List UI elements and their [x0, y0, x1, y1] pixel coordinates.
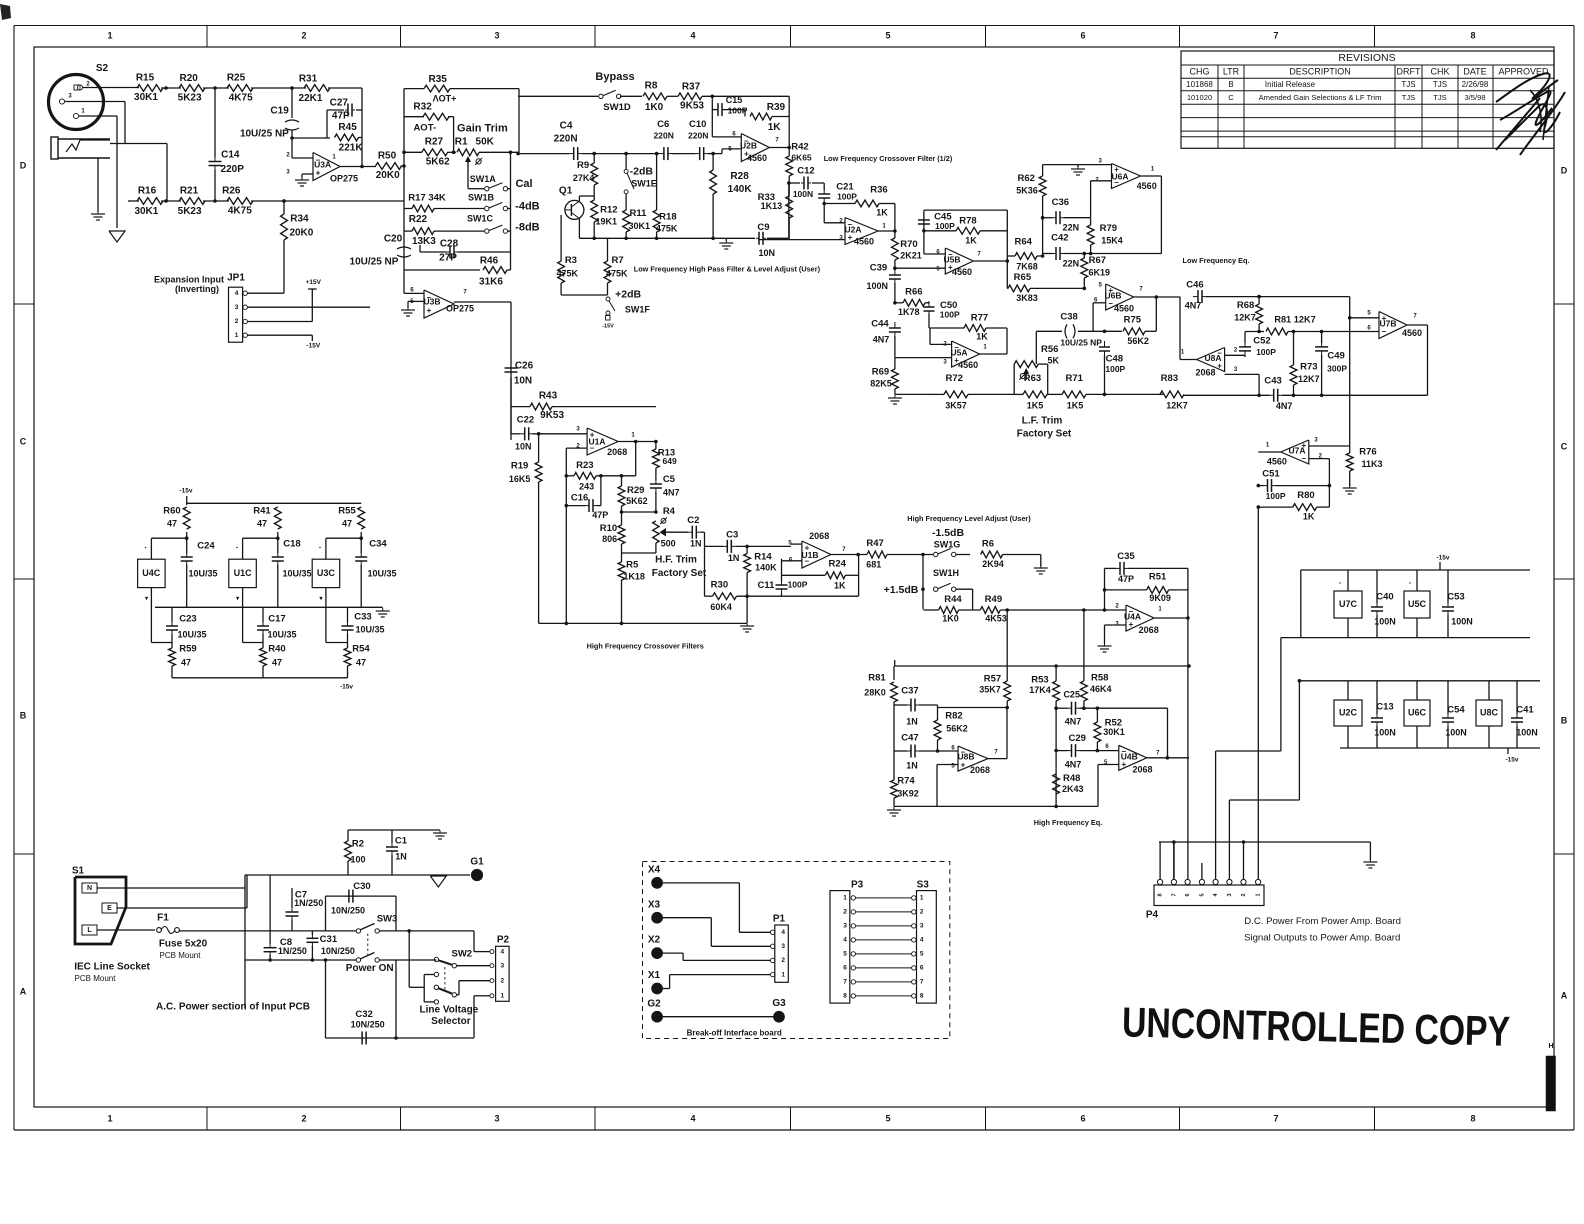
svg-text:C12: C12 [797, 166, 814, 177]
svg-text:N: N [87, 885, 92, 892]
svg-text:3: 3 [494, 1113, 499, 1123]
svg-text:C49: C49 [1327, 351, 1344, 362]
svg-text:19K1: 19K1 [595, 216, 617, 226]
svg-text:U3B: U3B [423, 296, 440, 306]
svg-text:+1.5dB: +1.5dB [884, 584, 919, 596]
svg-text:4K75: 4K75 [228, 206, 252, 217]
svg-text:10U/35: 10U/35 [267, 629, 296, 639]
svg-text:100P: 100P [837, 191, 857, 201]
svg-text:20K0: 20K0 [376, 170, 400, 181]
svg-text:30K1: 30K1 [1103, 727, 1125, 737]
svg-text:R56: R56 [1041, 344, 1058, 355]
svg-text:10U/35: 10U/35 [367, 568, 396, 578]
svg-text:46K4: 46K4 [1090, 684, 1112, 694]
svg-text:-15V: -15V [306, 342, 320, 349]
svg-text:+: + [1121, 760, 1126, 769]
svg-text:4560: 4560 [1114, 303, 1134, 313]
svg-text:9K53: 9K53 [540, 410, 564, 421]
svg-text:OP275: OP275 [330, 173, 358, 183]
svg-text:1N/250: 1N/250 [278, 946, 307, 956]
svg-text:4560: 4560 [1402, 328, 1422, 338]
svg-text:C22: C22 [517, 415, 534, 426]
svg-text:-1.5dB: -1.5dB [932, 527, 965, 539]
svg-text:R5: R5 [626, 559, 639, 570]
svg-text:SW1D: SW1D [603, 102, 631, 113]
svg-text:U7C: U7C [1339, 599, 1358, 609]
svg-text:X3: X3 [648, 899, 661, 910]
svg-text:Initial Release: Initial Release [1265, 80, 1316, 89]
svg-text:U7A: U7A [1288, 445, 1305, 455]
svg-text:R27: R27 [425, 137, 444, 148]
svg-text:R55: R55 [338, 506, 356, 517]
svg-text:Expansion Input: Expansion Input [154, 274, 224, 284]
svg-text:R67: R67 [1089, 255, 1106, 266]
svg-text:R81 12K7: R81 12K7 [1274, 315, 1315, 325]
svg-text:C18: C18 [283, 539, 300, 550]
svg-text:1: 1 [1256, 893, 1262, 896]
svg-text:D: D [20, 160, 27, 170]
svg-text:4: 4 [235, 290, 239, 297]
svg-text:47: 47 [356, 657, 366, 667]
svg-text:U1B: U1B [801, 550, 818, 560]
svg-text:U2A: U2A [844, 224, 861, 234]
svg-text:C14: C14 [221, 149, 240, 160]
svg-text:DRFT: DRFT [1397, 66, 1421, 76]
svg-text:ΛOT+: ΛOT+ [433, 93, 457, 103]
svg-text:SW1H: SW1H [933, 568, 959, 578]
svg-text:35K7: 35K7 [979, 684, 1001, 694]
svg-text:+: + [427, 306, 432, 315]
svg-text:5: 5 [885, 1113, 890, 1123]
svg-text:C40: C40 [1376, 592, 1393, 603]
svg-text:4N7: 4N7 [663, 487, 680, 497]
svg-text:100P: 100P [1105, 364, 1125, 374]
svg-text:R72: R72 [945, 373, 962, 384]
svg-text:C51: C51 [1262, 469, 1280, 480]
svg-text:R54: R54 [352, 644, 370, 655]
svg-text:2068: 2068 [970, 765, 990, 775]
svg-text:U2C: U2C [1339, 707, 1358, 717]
svg-text:U8A: U8A [1204, 353, 1221, 363]
svg-text:Low Frequency Crossover Filter: Low Frequency Crossover Filter (1/2) [824, 154, 953, 163]
svg-text:4K75: 4K75 [229, 93, 253, 104]
svg-text:C39: C39 [870, 263, 887, 274]
svg-text:R43: R43 [539, 391, 558, 402]
svg-text:2: 2 [781, 957, 785, 964]
svg-text:P1: P1 [773, 914, 786, 925]
svg-text:U5C: U5C [1408, 599, 1427, 609]
svg-text:56K2: 56K2 [946, 723, 968, 733]
svg-text:100P: 100P [940, 310, 960, 320]
svg-text:2: 2 [500, 977, 504, 984]
svg-text:82K5: 82K5 [870, 379, 892, 389]
svg-text:100P: 100P [935, 221, 955, 231]
svg-text:U4C: U4C [142, 568, 161, 578]
svg-text:5K23: 5K23 [178, 206, 202, 217]
svg-text:475K: 475K [556, 269, 578, 279]
svg-text:R24: R24 [828, 559, 846, 570]
svg-text:2068: 2068 [1195, 367, 1215, 377]
svg-text:9K09: 9K09 [1149, 593, 1171, 603]
svg-text:Q1: Q1 [559, 185, 573, 196]
svg-text:100P: 100P [1266, 491, 1286, 501]
svg-text:C1: C1 [395, 836, 408, 847]
svg-text:2K94: 2K94 [982, 559, 1004, 569]
svg-text:G3: G3 [772, 998, 786, 1009]
svg-text:(Inverting): (Inverting) [175, 284, 219, 294]
svg-text:R8: R8 [645, 81, 658, 92]
svg-text:4: 4 [920, 937, 924, 944]
svg-text:4560: 4560 [854, 236, 874, 246]
svg-text:C29: C29 [1068, 733, 1085, 744]
svg-text:5: 5 [843, 951, 847, 958]
svg-text:AOT-: AOT- [413, 123, 436, 134]
svg-text:27K4: 27K4 [573, 173, 595, 183]
svg-text:1K18: 1K18 [623, 572, 645, 582]
svg-text:4: 4 [690, 1113, 695, 1123]
svg-text:R14: R14 [754, 552, 772, 563]
svg-text:300P: 300P [1327, 364, 1347, 374]
svg-text:2068: 2068 [607, 447, 627, 457]
svg-text:2068: 2068 [809, 531, 829, 541]
svg-text:SW1B: SW1B [468, 192, 495, 202]
svg-text:5: 5 [920, 951, 924, 958]
svg-text:100N: 100N [1516, 727, 1538, 737]
svg-text:101020: 101020 [1187, 93, 1212, 102]
svg-text:9K53: 9K53 [680, 101, 704, 112]
svg-text:4: 4 [690, 30, 695, 40]
svg-text:C31: C31 [320, 934, 338, 945]
svg-text:100N: 100N [793, 189, 813, 199]
svg-text:3/5/98: 3/5/98 [1464, 93, 1485, 102]
svg-text:R32: R32 [413, 101, 432, 112]
svg-text:220P: 220P [221, 164, 245, 175]
svg-text:R44: R44 [944, 594, 962, 605]
svg-text:C17: C17 [268, 614, 285, 625]
svg-text:2: 2 [920, 909, 924, 916]
svg-text:30K1: 30K1 [629, 221, 651, 231]
svg-text:R57: R57 [984, 674, 1001, 685]
svg-text:R49: R49 [985, 594, 1002, 605]
svg-text:140K: 140K [728, 184, 753, 195]
svg-text:JP1: JP1 [227, 273, 245, 284]
svg-text:+2dB: +2dB [615, 289, 641, 301]
svg-text:R20: R20 [180, 73, 199, 84]
svg-text:Factory Set: Factory Set [652, 568, 707, 579]
svg-text:1N: 1N [690, 538, 702, 548]
svg-text:R71: R71 [1065, 373, 1083, 384]
svg-text:B: B [20, 710, 27, 720]
svg-text:7K68: 7K68 [1016, 261, 1038, 271]
svg-text:R76: R76 [1359, 447, 1376, 458]
svg-text:C13: C13 [1376, 702, 1393, 713]
svg-text:2/26/98: 2/26/98 [1462, 80, 1489, 89]
svg-text:R11: R11 [630, 208, 648, 219]
svg-text:R69: R69 [872, 367, 889, 378]
svg-text:P3: P3 [851, 880, 864, 891]
svg-text:TJS: TJS [1433, 80, 1447, 89]
svg-text:R36: R36 [870, 185, 887, 196]
svg-text:R6: R6 [982, 539, 994, 550]
svg-text:R25: R25 [227, 73, 246, 84]
svg-text:50K: 50K [476, 137, 495, 148]
svg-text:U7B: U7B [1379, 318, 1396, 328]
svg-text:-8dB: -8dB [515, 222, 540, 234]
svg-text:U1C: U1C [234, 568, 253, 578]
svg-text:C11: C11 [758, 580, 776, 591]
svg-text:C: C [1228, 93, 1234, 102]
svg-text:3: 3 [494, 30, 499, 40]
svg-text:3: 3 [843, 923, 847, 930]
svg-text:C26: C26 [515, 361, 534, 372]
svg-text:6: 6 [920, 965, 924, 972]
svg-text:S3: S3 [917, 880, 930, 891]
svg-text:C53: C53 [1447, 592, 1464, 603]
svg-text:7: 7 [1273, 1113, 1278, 1123]
svg-text:S2: S2 [96, 63, 109, 74]
svg-text:-15v: -15v [1436, 555, 1449, 562]
svg-text:R48: R48 [1063, 773, 1080, 784]
svg-text:1K5: 1K5 [1027, 400, 1044, 410]
svg-text:▪: ▪ [236, 545, 238, 551]
svg-text:5K: 5K [1047, 355, 1059, 365]
svg-text:8: 8 [1470, 1113, 1475, 1123]
svg-text:56K2: 56K2 [1127, 336, 1149, 346]
svg-text:R30: R30 [711, 579, 728, 590]
svg-text:16K5: 16K5 [509, 474, 531, 484]
svg-text:47: 47 [181, 657, 191, 667]
svg-text:220N: 220N [654, 131, 674, 141]
svg-text:R9: R9 [577, 160, 589, 171]
svg-text:U6C: U6C [1408, 707, 1427, 717]
svg-text:10N/250: 10N/250 [331, 905, 365, 915]
svg-text:4560: 4560 [1267, 456, 1287, 466]
svg-text:+15V: +15V [306, 279, 322, 286]
svg-text:R15: R15 [136, 73, 155, 84]
svg-text:R41: R41 [253, 506, 271, 517]
svg-text:U1A: U1A [588, 436, 605, 446]
svg-text:Factory Set: Factory Set [1017, 429, 1072, 440]
svg-text:SW1F: SW1F [625, 304, 651, 314]
svg-text:U3C: U3C [317, 568, 336, 578]
svg-text:10N: 10N [515, 441, 532, 451]
svg-text:R82: R82 [945, 711, 962, 722]
svg-text:2068: 2068 [1132, 764, 1152, 774]
svg-text:3: 3 [235, 304, 239, 311]
svg-text:47P: 47P [1118, 574, 1134, 584]
svg-text:R1: R1 [455, 137, 468, 148]
svg-text:10U/35: 10U/35 [188, 568, 217, 578]
svg-text:R29: R29 [627, 485, 644, 496]
svg-text:10U/25 NP: 10U/25 NP [1060, 338, 1102, 348]
svg-text:L.F. Trim: L.F. Trim [1022, 416, 1063, 427]
svg-text:1: 1 [781, 971, 785, 978]
svg-text:4N7: 4N7 [1276, 401, 1293, 411]
svg-text:100: 100 [350, 854, 365, 864]
svg-text:10N: 10N [758, 248, 775, 258]
svg-text:C35: C35 [1117, 551, 1135, 562]
svg-text:C28: C28 [440, 239, 459, 250]
svg-text:B: B [1228, 80, 1233, 89]
svg-text:C54: C54 [1447, 705, 1465, 716]
svg-text:X4: X4 [648, 865, 661, 876]
svg-text:Gain Trim: Gain Trim [457, 123, 508, 135]
svg-text:R74: R74 [897, 776, 915, 787]
svg-text:C3: C3 [726, 530, 738, 541]
svg-text:–: – [1382, 327, 1387, 336]
svg-text:R31: R31 [299, 74, 318, 85]
svg-text:U4B: U4B [1121, 751, 1138, 761]
svg-text:C34: C34 [369, 539, 387, 550]
svg-text:C: C [20, 436, 27, 446]
svg-text:12K7: 12K7 [1298, 374, 1320, 384]
svg-text:-4dB: -4dB [515, 200, 540, 212]
svg-text:10N: 10N [514, 376, 532, 387]
svg-text:R65: R65 [1014, 272, 1032, 283]
svg-text:U3A: U3A [314, 159, 331, 169]
svg-text:R34: R34 [290, 214, 309, 225]
svg-text:47P: 47P [592, 510, 608, 520]
svg-text:High Frequency Crossover Filte: High Frequency Crossover Filters [587, 641, 704, 650]
svg-text:1K78: 1K78 [898, 307, 920, 317]
svg-text:PCB Mount: PCB Mount [75, 974, 117, 983]
svg-text:PCB Mount: PCB Mount [160, 951, 202, 960]
svg-text:4: 4 [781, 929, 785, 936]
svg-text:10U/35: 10U/35 [282, 568, 311, 578]
svg-text:1K: 1K [965, 235, 977, 245]
svg-text:UNCONTROLLED COPY: UNCONTROLLED COPY [1122, 998, 1511, 1054]
svg-text:17K4: 17K4 [1029, 685, 1051, 695]
svg-text:Low Frequency Eq.: Low Frequency Eq. [1183, 256, 1250, 265]
svg-text:R50: R50 [378, 150, 397, 161]
svg-text:D: D [1561, 165, 1568, 175]
svg-text:7: 7 [843, 979, 847, 986]
svg-text:C46: C46 [1186, 280, 1203, 291]
svg-text:R80: R80 [1297, 490, 1314, 501]
svg-text:R83: R83 [1161, 373, 1178, 384]
svg-text:SW1E: SW1E [631, 178, 657, 188]
svg-text:4560: 4560 [958, 360, 978, 370]
svg-text:R28: R28 [730, 171, 749, 182]
svg-text:475K: 475K [656, 224, 678, 234]
svg-text:R66: R66 [905, 286, 922, 297]
svg-text:DESCRIPTION: DESCRIPTION [1289, 66, 1351, 76]
svg-text:-15v: -15v [1505, 757, 1518, 764]
svg-text:3K92: 3K92 [897, 788, 919, 798]
svg-text:C24: C24 [197, 541, 215, 552]
svg-text:1K: 1K [976, 331, 988, 341]
svg-text:SW1A: SW1A [470, 174, 497, 184]
svg-text:R62: R62 [1017, 173, 1034, 184]
svg-text:–: – [1108, 299, 1113, 308]
svg-text:4K53: 4K53 [985, 613, 1007, 623]
svg-text:2K43: 2K43 [1062, 784, 1084, 794]
svg-text:R63: R63 [1024, 373, 1041, 384]
svg-text:R18: R18 [659, 212, 676, 223]
svg-text:R3: R3 [565, 255, 577, 266]
svg-text:1: 1 [843, 895, 847, 902]
svg-text:221K: 221K [339, 142, 364, 153]
svg-text:R77: R77 [971, 313, 988, 324]
svg-text:3K57: 3K57 [945, 400, 967, 410]
svg-text:+: + [961, 761, 966, 770]
svg-text:4560: 4560 [747, 153, 767, 163]
svg-text:U6B: U6B [1104, 290, 1121, 300]
svg-text:IEC Line Socket: IEC Line Socket [74, 962, 150, 973]
svg-text:2: 2 [301, 30, 306, 40]
svg-text:Fuse 5x20: Fuse 5x20 [159, 939, 208, 950]
svg-text:C27: C27 [330, 98, 349, 109]
svg-text:C2: C2 [687, 515, 699, 526]
svg-text:R2: R2 [352, 839, 364, 850]
svg-text:U6A: U6A [1111, 171, 1128, 181]
svg-text:47: 47 [257, 518, 267, 528]
svg-text:U5B: U5B [943, 254, 960, 264]
svg-text:G2: G2 [647, 998, 661, 1009]
svg-text:1K: 1K [768, 122, 782, 133]
svg-text:R59: R59 [179, 644, 196, 655]
svg-text:2: 2 [1241, 893, 1247, 896]
svg-text:5K23: 5K23 [178, 93, 202, 104]
svg-text:A: A [1561, 990, 1568, 1000]
svg-text:R21: R21 [180, 185, 199, 196]
svg-text:+: + [848, 233, 853, 242]
svg-text:220N: 220N [688, 131, 708, 141]
svg-text:C20: C20 [384, 234, 403, 245]
svg-text:220N: 220N [554, 134, 578, 145]
svg-text:1N: 1N [395, 851, 407, 861]
svg-text:649: 649 [663, 456, 677, 466]
svg-text:6: 6 [1080, 30, 1085, 40]
svg-text:C44: C44 [871, 319, 889, 330]
svg-text:6K65: 6K65 [791, 152, 812, 162]
svg-text:–: – [1302, 454, 1307, 463]
svg-text:▪: ▪ [319, 545, 321, 551]
svg-text:C33: C33 [354, 612, 371, 623]
svg-text:R45: R45 [338, 122, 357, 133]
svg-text:20K0: 20K0 [289, 227, 313, 238]
svg-text:6: 6 [843, 965, 847, 972]
svg-text:Power ON: Power ON [346, 963, 394, 974]
svg-text:C5: C5 [663, 474, 676, 485]
svg-text:R51: R51 [1149, 572, 1167, 583]
svg-text:X2: X2 [648, 935, 661, 946]
svg-text:C30: C30 [353, 881, 370, 892]
svg-text:4560: 4560 [1137, 181, 1157, 191]
svg-text:Amended Gain Selections & LF T: Amended Gain Selections & LF Trim [1259, 93, 1382, 102]
svg-text:R68: R68 [1237, 300, 1254, 311]
svg-text:R17 34K: R17 34K [408, 192, 446, 203]
svg-text:S1: S1 [72, 866, 85, 877]
svg-text:R73: R73 [1300, 362, 1317, 373]
svg-text:4N7: 4N7 [1185, 300, 1202, 310]
svg-text:R40: R40 [268, 644, 285, 655]
svg-text:3: 3 [781, 943, 785, 950]
svg-text:C42: C42 [1051, 232, 1068, 243]
svg-text:C38: C38 [1060, 312, 1077, 323]
svg-text:3: 3 [500, 962, 504, 969]
svg-text:243: 243 [579, 482, 594, 492]
svg-text:C25: C25 [1063, 690, 1080, 700]
svg-text:U8B: U8B [957, 751, 974, 761]
svg-text:Cal: Cal [515, 178, 532, 190]
svg-text:22N: 22N [1063, 258, 1080, 268]
svg-text:1: 1 [235, 332, 239, 339]
svg-text:4N7: 4N7 [1065, 716, 1082, 726]
svg-text:1: 1 [920, 895, 924, 902]
svg-text:Selector: Selector [431, 1016, 471, 1027]
svg-text:TJS: TJS [1433, 93, 1447, 102]
